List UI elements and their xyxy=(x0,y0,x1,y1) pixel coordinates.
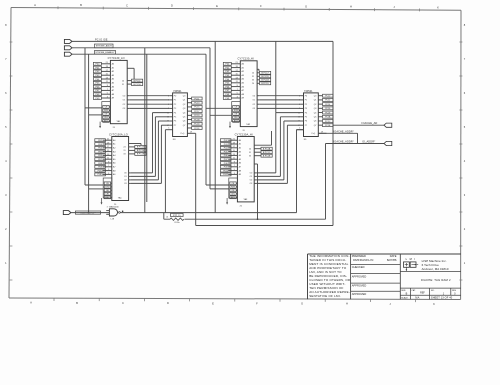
dual-port RAM CY7C130_HI xyxy=(238,57,258,132)
net label IOACHE_ADDR* lower xyxy=(334,141,354,144)
wire connector to gate L28 xyxy=(71,212,110,214)
svg-text:IOACHE_ADDR*: IOACHE_ADDR* xyxy=(334,141,354,144)
CY7C130_LO address input pins xyxy=(93,62,115,100)
svg-text:P7: P7 xyxy=(305,125,307,127)
net label IOACHE_ADDR* upper xyxy=(334,130,354,133)
svg-text:15: 15 xyxy=(106,74,108,76)
svg-text:A: A xyxy=(34,3,36,7)
svg-text:P1: P1 xyxy=(305,100,307,102)
svg-text:Q6: Q6 xyxy=(183,121,186,123)
svg-text:21: 21 xyxy=(233,139,235,141)
CY7C130_HI ground arrow xyxy=(229,122,231,129)
svg-text:RTP_15: RTP_15 xyxy=(173,215,181,217)
svg-text:33: 33 xyxy=(123,154,125,156)
dual-port RAM CY7C130A_LO xyxy=(109,132,129,206)
svg-text:3: 3 xyxy=(107,96,108,98)
svg-text:PC1B: PC1B xyxy=(194,119,200,121)
svg-text:CAT.: CAT. xyxy=(411,289,416,292)
svg-text:P1: P1 xyxy=(174,100,176,102)
output connector IOACHE_AD xyxy=(384,123,392,127)
svg-text:31: 31 xyxy=(252,76,254,78)
svg-text:B PC14: B PC14 xyxy=(137,147,145,149)
svg-text:E: E xyxy=(212,301,214,305)
svg-text:7: 7 xyxy=(234,165,235,167)
svg-text:21: 21 xyxy=(106,62,108,64)
wire control tap IC4 CE xyxy=(206,184,229,186)
svg-text:P7: P7 xyxy=(174,125,176,127)
svg-text:R/W: R/W xyxy=(104,110,108,112)
wire control tap IC3 OE xyxy=(210,114,232,116)
svg-text:Q3: Q3 xyxy=(314,108,317,110)
svg-text:P6: P6 xyxy=(174,121,176,123)
svg-text:Q1: Q1 xyxy=(183,100,186,102)
svg-text:Q2: Q2 xyxy=(314,104,317,106)
svg-text:PC1A: PC1A xyxy=(325,116,331,119)
svg-text:11: 11 xyxy=(107,158,109,160)
svg-text:K: K xyxy=(437,5,439,9)
svg-text:CY7C130A_LO: CY7C130A_LO xyxy=(109,132,128,136)
CY7C130_LO ground arrow xyxy=(99,122,101,129)
nand gate 74AS1000 L28 xyxy=(106,206,120,221)
svg-text:SHEET 13 OF 40: SHEET 13 OF 40 xyxy=(431,295,453,299)
svg-text:REV: REV xyxy=(452,290,457,292)
svg-text:Q7: Q7 xyxy=(183,125,186,127)
wire PC IO IOE drop right xyxy=(332,41,334,225)
CY7C130A_HI ground arrow xyxy=(226,198,228,205)
svg-text:33: 33 xyxy=(249,155,251,157)
wire IOACHE_AD output net xyxy=(333,124,384,126)
svg-text:C: C xyxy=(126,3,128,7)
svg-text:N/A: N/A xyxy=(415,296,419,299)
CY7C130A_HI right I/O bend wire xyxy=(254,131,271,145)
company logo LMI xyxy=(404,257,419,271)
svg-text:19: 19 xyxy=(106,66,108,68)
svg-text:P5: P5 xyxy=(174,117,176,119)
svg-text:33: 33 xyxy=(252,80,254,82)
svg-text:NO.: NO. xyxy=(431,290,435,292)
svg-text:IOACHE_AD: IOACHE_AD xyxy=(362,121,378,125)
input connector PC IO IOE xyxy=(64,39,72,43)
svg-text:7: 7 xyxy=(237,89,238,91)
svg-text:D: D xyxy=(167,301,169,305)
wire STROBE_ENABLE* drop centre xyxy=(205,54,207,185)
svg-text:3: 3 xyxy=(108,173,109,175)
CY7C130_HI right I/O bend wire xyxy=(257,69,259,71)
wire bus IC3 outputs to comparator K5 xyxy=(259,96,300,109)
wire STROBE_ADDR drop left xyxy=(84,48,86,185)
svg-text:9: 9 xyxy=(237,85,238,87)
wire comparator K8 pin19 drop xyxy=(195,133,197,225)
svg-text:PC13: PC13 xyxy=(194,103,200,105)
svg-text:13: 13 xyxy=(107,154,109,156)
svg-text:PC10: PC10 xyxy=(325,96,331,98)
svg-text:REF: REF xyxy=(420,292,425,295)
svg-text:B PC1C: B PC1C xyxy=(263,152,271,154)
svg-text:CHECKED: CHECKED xyxy=(352,265,365,269)
svg-text:31: 31 xyxy=(122,84,124,86)
svg-text:74AS1000: 74AS1000 xyxy=(109,206,120,209)
CY7C130_HI right I/O pins upper with net labels xyxy=(252,71,271,85)
wire STROBE_ENABLE* drop left xyxy=(88,54,90,212)
svg-text:24: 24 xyxy=(123,147,125,149)
svg-text:Q0: Q0 xyxy=(314,95,317,97)
svg-text:P010: P010 xyxy=(223,170,229,172)
svg-text:5: 5 xyxy=(237,93,238,95)
wire PC IO IOE drop centre xyxy=(214,41,216,212)
company address text xyxy=(422,259,449,271)
CY7C130A_HI control input pins xyxy=(229,178,238,199)
wire H1 riser to comparator K5 enable xyxy=(297,130,304,213)
svg-text:B PC11: B PC11 xyxy=(134,80,142,82)
svg-text:PC12: PC12 xyxy=(325,100,331,102)
wire control tap IC3 CE xyxy=(206,107,232,109)
CY7C130A_HI right I/O pins upper with net labels xyxy=(249,147,272,157)
svg-text:A: A xyxy=(30,301,32,305)
CY7C130A_LO address input pins xyxy=(95,139,117,177)
wire STROBE_ADDR drop mid-left xyxy=(144,48,146,213)
net label STROBE_ENABLE* xyxy=(95,50,116,54)
svg-text:P0: P0 xyxy=(174,95,176,97)
net label IOACHE_WND** xyxy=(75,211,100,214)
wire control tap IC2 OE xyxy=(89,188,104,190)
svg-text:PC15: PC15 xyxy=(194,107,200,109)
CY7C130_HI control input pins xyxy=(232,102,241,123)
svg-text:STROBE_ENABLE*: STROBE_ENABLE* xyxy=(95,51,114,54)
svg-text:11: 11 xyxy=(106,81,108,83)
net label IO_ADDR* xyxy=(362,140,375,144)
svg-text:Q5: Q5 xyxy=(183,117,186,119)
junction dot H2 drop xyxy=(257,219,258,220)
svg-text:13: 13 xyxy=(236,77,238,79)
svg-text:R/W: R/W xyxy=(105,187,109,189)
input connector IOACHE_WND** xyxy=(63,211,71,215)
svg-text:B PC1E: B PC1E xyxy=(263,156,271,158)
svg-text:PC16: PC16 xyxy=(325,108,331,110)
svg-text:15: 15 xyxy=(233,150,235,152)
svg-text:9: 9 xyxy=(108,161,109,163)
input connector STROBE_ENABLE* xyxy=(64,52,72,56)
svg-text:RC8a: RC8a xyxy=(175,222,181,224)
net label STROBE_ADDR xyxy=(95,44,114,48)
svg-text:15: 15 xyxy=(107,150,109,152)
svg-text:PC1E: PC1E xyxy=(325,125,331,127)
input connector STROBE_ADDR xyxy=(64,46,72,50)
svg-text:5: 5 xyxy=(107,93,108,95)
svg-text:G: G xyxy=(305,4,307,8)
74F521 K5 Q compare pins with net labels xyxy=(318,94,333,127)
svg-text:IOACHE_ADDR*: IOACHE_ADDR* xyxy=(334,130,354,133)
CY7C130A_LO right I/O pins upper with net labels xyxy=(123,145,146,155)
svg-text:Q5: Q5 xyxy=(314,117,317,119)
svg-text:BSY: BSY xyxy=(234,121,239,123)
svg-text:24: 24 xyxy=(249,148,251,150)
svg-text:R/W: R/W xyxy=(231,187,235,189)
svg-text:13: 13 xyxy=(233,154,235,156)
svg-text:Q1: Q1 xyxy=(314,100,317,102)
wire H2 resistor net xyxy=(185,218,326,220)
svg-text:P=Q: P=Q xyxy=(312,133,316,135)
svg-text:P3: P3 xyxy=(305,108,307,110)
net label IOACHE_AD xyxy=(362,121,378,125)
svg-text:PC14: PC14 xyxy=(325,104,331,106)
svg-text:5: 5 xyxy=(108,169,109,171)
wire H1 gate output net xyxy=(120,212,296,214)
svg-text:B: B xyxy=(76,301,78,305)
svg-text:CY7C130A_HI: CY7C130A_HI xyxy=(235,132,253,136)
svg-text:C: C xyxy=(122,301,124,305)
74F521 K8 P input pins xyxy=(167,95,186,127)
wire IO_ADDR* output net xyxy=(326,143,385,145)
CY7C130_LO data output pins xyxy=(123,95,130,110)
wire PC IO IOE drop at comparator K5 xyxy=(275,41,277,112)
svg-text:P5: P5 xyxy=(305,117,307,119)
svg-text:Q3: Q3 xyxy=(183,108,186,110)
svg-text:PC1D: PC1D xyxy=(194,124,200,126)
svg-text:3: 3 xyxy=(107,207,108,209)
CY7C130_HI data output pins xyxy=(253,95,260,110)
border zone reference letters and ticks xyxy=(5,3,466,306)
svg-text:8/27/86: 8/27/86 xyxy=(387,258,397,262)
svg-text:21: 21 xyxy=(236,62,238,64)
svg-text:Andover, MA 01810: Andover, MA 01810 xyxy=(422,267,449,271)
svg-text:19: 19 xyxy=(233,142,235,144)
CY7C130_HI address input pins xyxy=(223,62,245,100)
CY7C130A_HI address input pins xyxy=(220,139,242,177)
svg-text:17: 17 xyxy=(107,146,109,148)
wire control tap IC1 CE xyxy=(85,107,102,109)
svg-text:11: 11 xyxy=(236,81,238,83)
svg-text:B PC19: B PC19 xyxy=(262,76,270,78)
junction dot gate output xyxy=(122,211,123,212)
CY7C130_LO control input pins xyxy=(102,102,111,123)
svg-text:G: G xyxy=(301,302,303,306)
svg-text:PC18: PC18 xyxy=(325,112,331,114)
wire staircase IC4 outputs to comparator K5 xyxy=(256,113,300,184)
svg-text:E: E xyxy=(216,4,218,8)
svg-text:B PC1B: B PC1B xyxy=(261,80,269,82)
74F521 K8 output pin 19 xyxy=(181,131,196,135)
title block scale sheet row xyxy=(401,295,453,299)
svg-text:01: 01 xyxy=(166,216,168,218)
wire staircase IC2 outputs to comparator K8 xyxy=(131,113,170,184)
74F521 K5 enable pin 1 xyxy=(296,128,303,130)
svg-text:19: 19 xyxy=(107,142,109,144)
74F521 K8 enable pin 1 xyxy=(165,128,172,130)
svg-text:13: 13 xyxy=(106,77,108,79)
CY7C130A_LO ground arrow xyxy=(101,198,103,205)
svg-text:SENTATIVE OF LMI.: SENTATIVE OF LMI. xyxy=(309,294,341,298)
svg-text:K: K xyxy=(433,302,435,306)
svg-text:IOACHE: TAG RAM 2: IOACHE: TAG RAM 2 xyxy=(421,278,451,282)
svg-text:3: 3 xyxy=(237,96,238,98)
svg-text:PC19: PC19 xyxy=(194,115,200,117)
net label PC IO IOE xyxy=(95,38,108,41)
CY7C130_LO right I/O pins upper with net labels xyxy=(122,79,143,86)
svg-text:P3: P3 xyxy=(174,108,176,110)
74F521 K8 Q compare pins with net labels xyxy=(187,97,202,130)
title block frame xyxy=(308,254,462,299)
wire H3 bottom net xyxy=(196,225,333,227)
svg-text:17: 17 xyxy=(106,70,108,72)
74F521 K5 output pin 19 xyxy=(312,131,327,135)
svg-text:B PC17: B PC17 xyxy=(262,73,270,75)
svg-text:Q0: Q0 xyxy=(183,95,186,97)
svg-text:STROBE_ADDR: STROBE_ADDR xyxy=(96,45,113,48)
wire PC IO IOE horizontal xyxy=(72,40,333,42)
svg-text:APPROVED: APPROVED xyxy=(352,284,367,288)
svg-text:17: 17 xyxy=(233,146,235,148)
svg-text:7: 7 xyxy=(107,89,108,91)
wire control tap IC1 OE xyxy=(89,114,102,116)
drawing title text xyxy=(400,272,461,283)
svg-text:DMFRANKLIN: DMFRANKLIN xyxy=(353,258,373,262)
svg-text:9: 9 xyxy=(107,85,108,87)
CY7C130A_LO control input pins xyxy=(103,178,112,199)
svg-text:31: 31 xyxy=(123,150,125,152)
svg-text:31: 31 xyxy=(249,152,251,154)
title block approvals column xyxy=(351,254,401,296)
CY7C130A_LO right I/O bend wire xyxy=(129,144,141,146)
comparator 74F521 K5 xyxy=(304,90,319,141)
svg-text:CY7C130_HI: CY7C130_HI xyxy=(238,57,254,61)
svg-text:P2: P2 xyxy=(174,104,176,106)
svg-text:APPROVED: APPROVED xyxy=(352,292,367,296)
svg-text:7: 7 xyxy=(108,165,109,167)
svg-text:P011: P011 xyxy=(98,174,104,176)
svg-text:5: 5 xyxy=(234,169,235,171)
svg-text:PC17: PC17 xyxy=(194,111,200,113)
svg-text:19: 19 xyxy=(236,66,238,68)
svg-text:BSY: BSY xyxy=(104,121,109,123)
svg-text:BSY: BSY xyxy=(231,197,236,199)
svg-text:R/W: R/W xyxy=(234,110,238,112)
resistor RTP_15 RC8a xyxy=(164,213,184,225)
svg-text:9: 9 xyxy=(234,161,235,163)
wire control tap IC4 OE xyxy=(210,188,229,190)
svg-text:PC11: PC11 xyxy=(194,98,200,100)
svg-text:P2: P2 xyxy=(305,104,307,106)
svg-text:B PC16: B PC16 xyxy=(137,150,145,152)
svg-text:15: 15 xyxy=(236,74,238,76)
svg-text:17: 17 xyxy=(236,70,238,72)
74F521 K5 P input pins xyxy=(298,95,317,127)
svg-text:APPROVED: APPROVED xyxy=(352,274,367,278)
CY7C130A_HI data output pins xyxy=(250,173,257,186)
dual-port RAM CY7C130_LO xyxy=(108,56,128,129)
svg-text:B PC1A: B PC1A xyxy=(263,148,271,151)
dual-port RAM CY7C130A_HI xyxy=(235,132,255,207)
CY7C130A_LO data output pins xyxy=(124,173,131,186)
output connector IO_ADDR* xyxy=(384,141,392,145)
svg-text:11: 11 xyxy=(233,158,235,160)
svg-text:H: H xyxy=(346,302,348,306)
svg-text:P010: P010 xyxy=(98,170,104,172)
wire STROBE_ADDR horizontal xyxy=(72,47,210,49)
wire comparator K8 enable riser xyxy=(164,130,166,213)
svg-text:SIZE: SIZE xyxy=(401,290,406,292)
svg-text:PC1F: PC1F xyxy=(194,128,200,130)
junction dot gate input xyxy=(88,212,89,213)
svg-text:L M I: L M I xyxy=(406,257,417,261)
title block size cat no rev row xyxy=(400,288,461,296)
svg-text:Q6: Q6 xyxy=(314,121,317,123)
wire STROBE_ENABLE* drop mid-left xyxy=(146,54,148,202)
svg-text:P=Q: P=Q xyxy=(181,133,185,135)
svg-text:Q2: Q2 xyxy=(183,104,186,106)
svg-text:CY7C130_LO: CY7C130_LO xyxy=(108,56,125,60)
wire K5 pin19 to IOACHE_ADDR* xyxy=(318,133,357,143)
svg-text:PC1C: PC1C xyxy=(325,121,331,123)
svg-text:P6: P6 xyxy=(305,121,307,123)
svg-text:B PC18: B PC18 xyxy=(137,154,145,156)
svg-text:H: H xyxy=(350,5,352,9)
svg-text:B PC10: B PC10 xyxy=(134,84,142,86)
svg-text:3: 3 xyxy=(234,173,235,175)
svg-text:24: 24 xyxy=(252,73,254,75)
wire STROBE_ENABLE* horizontal xyxy=(72,53,206,55)
wire H2 riser to IO_ADDR* net xyxy=(325,144,327,220)
svg-text:B PC1D: B PC1D xyxy=(261,83,269,85)
svg-text:IO_ADDR*: IO_ADDR* xyxy=(362,140,375,144)
svg-text:P011: P011 xyxy=(223,174,229,176)
CY7C130_LO right I/O bend wire xyxy=(127,68,134,79)
comparator 74F521 K8 xyxy=(173,90,188,141)
wire bus IC1 outputs to comparator K8 xyxy=(129,96,169,109)
title block notice text xyxy=(309,254,351,298)
svg-text:P0: P0 xyxy=(305,95,307,97)
svg-text:SCALE: SCALE xyxy=(401,296,408,299)
svg-text:24: 24 xyxy=(122,80,124,82)
svg-text:21: 21 xyxy=(107,139,109,141)
wire control tap IC2 CE xyxy=(85,184,103,186)
drawing border frame xyxy=(9,8,461,300)
wire STROBE_ADDR drop centre xyxy=(209,48,211,189)
svg-text:BSY: BSY xyxy=(105,197,110,199)
CY7C130A_HI I/O drop wire xyxy=(254,164,257,219)
svg-text:B: B xyxy=(80,3,82,7)
svg-text:D: D xyxy=(171,4,173,8)
svg-text:Q7: Q7 xyxy=(314,125,317,127)
svg-text:24: 24 xyxy=(252,83,254,85)
